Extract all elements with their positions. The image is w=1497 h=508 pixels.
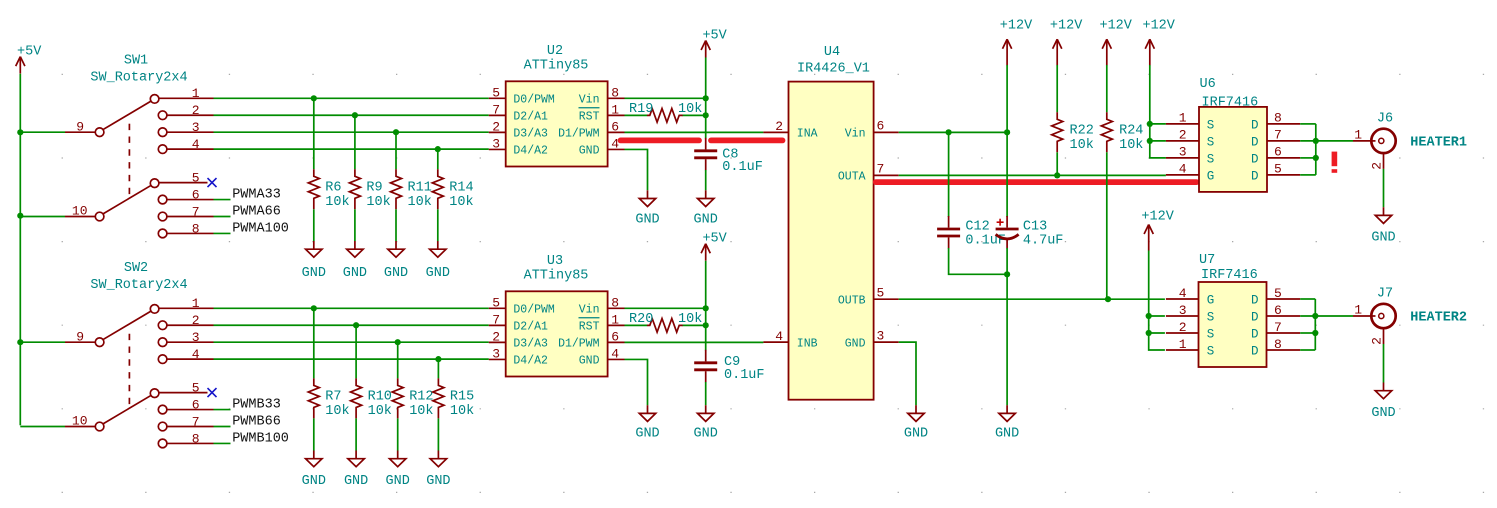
svg-text:PWMB66: PWMB66: [232, 415, 281, 430]
resistor R24 10k: [1101, 112, 1112, 152]
svg-text:2: 2: [492, 329, 500, 344]
U2 pin 8 (Vin): [579, 85, 625, 106]
label R14 value: [449, 180, 473, 210]
svg-text:GND: GND: [426, 266, 450, 281]
switch SW1 pin 7: [158, 204, 213, 221]
ground GND under R15: [426, 451, 450, 490]
svg-text:PWMA100: PWMA100: [232, 221, 289, 236]
junction net1B: [311, 305, 317, 311]
svg-text:+5V: +5V: [702, 232, 727, 247]
wire U2 pin6 to U4 INA: [625, 131, 764, 133]
wire U2 pin4 to GND: [625, 149, 648, 190]
svg-text:GND: GND: [579, 355, 600, 368]
ground GND under C9: [694, 405, 718, 441]
wire +12V#5 to U7 S pins: [1149, 251, 1165, 351]
U7 pin 5 (D) right: [1251, 286, 1300, 308]
wire C12 bottom to join: [949, 248, 1008, 274]
svg-text:10: 10: [72, 414, 88, 429]
label R24 value: [1119, 123, 1143, 153]
svg-text:1: 1: [611, 312, 619, 327]
U7 pin 4 (G) left: [1166, 286, 1214, 308]
svg-text:OUTB: OUTB: [838, 294, 866, 307]
U6 pin 7 (D) right: [1251, 128, 1300, 150]
junction net3A: [393, 129, 399, 135]
svg-text:IRF7416: IRF7416: [1201, 268, 1258, 283]
junction U7 D7: [1312, 330, 1318, 336]
wire U3 pin6 to U4 INB: [625, 341, 764, 343]
transistor U7 IRF7416 body: [1199, 282, 1267, 367]
svg-text:S: S: [1207, 310, 1215, 324]
resistor R11 10k: [391, 169, 402, 209]
svg-text:10k: 10k: [450, 404, 474, 419]
wire SW2 pos1 to U3: [214, 307, 489, 309]
ground GND U3 pin4: [635, 405, 659, 441]
switch SW1 arm A: [103, 101, 152, 130]
svg-text:8: 8: [611, 85, 619, 100]
U4 pin 7 (OUTA): [838, 162, 899, 184]
svg-text:Vin: Vin: [579, 94, 600, 107]
svg-text:10k: 10k: [449, 195, 473, 210]
junction U6 S1: [1147, 121, 1153, 127]
wire C13 top: [1006, 132, 1008, 217]
svg-text:RST: RST: [579, 321, 600, 334]
svg-text:6: 6: [1274, 145, 1282, 160]
ground GND J7: [1371, 383, 1395, 421]
junction left rail / SW1 pin10: [17, 213, 23, 219]
U4 pin 5 (OUTB): [838, 285, 899, 307]
svg-text:G: G: [1207, 293, 1215, 307]
J7 pin 2: [1369, 327, 1384, 345]
ground GND under C12/C13: [995, 405, 1019, 441]
resistor R10 10k: [351, 378, 362, 418]
wire R7 top: [313, 308, 315, 378]
svg-text:2: 2: [1179, 320, 1187, 335]
svg-text:9: 9: [76, 329, 84, 344]
wire R9 top: [354, 115, 356, 169]
svg-text:6: 6: [1274, 303, 1282, 318]
resistor R7 10k: [308, 378, 319, 418]
svg-text:7: 7: [1274, 128, 1282, 143]
junction OUTB/R24: [1105, 296, 1111, 302]
label R7 value: [325, 389, 349, 419]
svg-text:J7: J7: [1377, 287, 1393, 302]
svg-text:6: 6: [192, 187, 200, 202]
svg-text:S: S: [1207, 135, 1215, 149]
svg-text:8: 8: [1274, 111, 1282, 126]
label R9 value: [366, 180, 390, 210]
svg-text:7: 7: [492, 312, 500, 327]
svg-text:6: 6: [611, 119, 619, 134]
svg-text:D2/A1: D2/A1: [513, 321, 548, 334]
switch SW2 common pin 10 wire: [20, 426, 65, 428]
svg-text:1: 1: [192, 86, 200, 101]
resistor R15 10k: [433, 378, 444, 418]
wire U6 pin8 stub: [1300, 123, 1316, 125]
U2 pin 1 (RST): [579, 102, 625, 123]
U3 pin 4 (GND): [579, 346, 625, 367]
switch SW1 pin 2: [158, 103, 213, 119]
svg-text:D3/A3: D3/A3: [513, 338, 548, 351]
svg-text:10k: 10k: [368, 404, 392, 419]
svg-text:SW_Rotary2x4: SW_Rotary2x4: [90, 278, 187, 293]
svg-text:S: S: [1207, 344, 1215, 358]
svg-text:S: S: [1207, 327, 1215, 341]
svg-text:D: D: [1251, 327, 1259, 341]
switch SW1 pin 4: [158, 137, 213, 154]
wire U6 pin6 stub: [1300, 157, 1316, 159]
svg-text:1: 1: [1179, 111, 1187, 126]
label C13 value: [1023, 220, 1064, 249]
op-amp U2 ATTiny85 body: [506, 81, 608, 166]
svg-text:J6: J6: [1377, 112, 1393, 127]
svg-text:GND: GND: [344, 474, 368, 489]
svg-text:3: 3: [492, 346, 500, 361]
svg-text:2: 2: [192, 103, 200, 118]
ground GND under R10: [344, 451, 368, 490]
U4 pin 2 (INA): [763, 119, 817, 140]
ground GND under R9: [343, 241, 367, 281]
switch SW1 common pin 10 wire: [20, 216, 65, 218]
svg-text:1: 1: [1354, 127, 1362, 142]
svg-text:10: 10: [72, 204, 88, 219]
op-amp U3 ATTiny85 body: [506, 291, 608, 376]
svg-text:INA: INA: [797, 128, 818, 141]
wire U7 pin7 stub: [1300, 332, 1315, 334]
svg-text:D: D: [1251, 344, 1259, 358]
svg-text:10k: 10k: [408, 195, 432, 210]
svg-text:R9: R9: [366, 180, 382, 195]
svg-text:4: 4: [611, 346, 619, 361]
svg-text:ATTiny85: ATTiny85: [524, 59, 589, 74]
svg-text:7: 7: [877, 162, 885, 177]
U3 pin 7 (D2/A1): [489, 312, 548, 333]
U7 pin 2 (S) left: [1166, 320, 1214, 342]
svg-text:PWMB100: PWMB100: [232, 431, 289, 446]
J6 pin 2: [1369, 152, 1384, 170]
svg-text:5: 5: [192, 380, 200, 395]
wire U6 S1 stub: [1150, 123, 1166, 125]
svg-text:U6: U6: [1200, 77, 1216, 92]
U2 pin 2 (D3/A3): [489, 119, 548, 140]
ground GND under R6: [302, 241, 326, 281]
switch SW2 pin 3: [158, 330, 213, 347]
wire SW2 pos3 to U3: [214, 341, 489, 343]
wire U3 pin8 to +5V: [625, 307, 706, 309]
wire J6 pin2 down: [1383, 169, 1385, 207]
wire U6 D rail: [1315, 124, 1317, 175]
wire R12 bottom: [397, 418, 399, 450]
wire U7 S2 stub: [1149, 332, 1165, 334]
resistor R6 10k: [308, 169, 319, 209]
switch SW2 arm A: [103, 311, 152, 340]
wire +12V#4 to U6 S pins: [1150, 65, 1166, 158]
svg-text:4: 4: [1179, 162, 1187, 177]
wire U6 pin5 stub: [1300, 174, 1316, 176]
wire R7 bottom: [313, 418, 315, 450]
power symbol PWR06 +12V: [1099, 18, 1132, 65]
svg-text:U3: U3: [547, 254, 563, 269]
svg-text:IR4426_V1: IR4426_V1: [797, 62, 870, 77]
label R12 value: [409, 389, 433, 419]
U6 pin 3 (S) left: [1166, 145, 1214, 167]
junction net2B: [353, 322, 359, 328]
svg-text:5: 5: [1274, 286, 1282, 301]
svg-text:5: 5: [877, 285, 885, 300]
junction Vin/C13/+12V: [1004, 129, 1010, 135]
svg-text:8: 8: [611, 295, 619, 310]
svg-text:2: 2: [492, 119, 500, 134]
wire U7 S3 stub: [1149, 315, 1165, 317]
wire U6 S2 stub: [1150, 140, 1166, 142]
U4 pin 6 (Vin): [845, 119, 899, 141]
ground GND under R7: [302, 451, 326, 490]
power symbol PWR04 +12V: [1000, 18, 1033, 65]
wire SW2 pos2 to U3: [214, 324, 489, 326]
svg-text:ATTiny85: ATTiny85: [524, 269, 589, 284]
highlighted wire segment (red) A1: [621, 137, 700, 143]
transistor U6 IRF7416 body: [1199, 107, 1267, 192]
svg-text:R19: R19: [629, 102, 653, 117]
ground GND J6: [1371, 207, 1395, 245]
wire +12V#2 to R22: [1056, 65, 1058, 112]
switch SW2 pin 5: [150, 380, 207, 397]
U6 pin 2 (S) left: [1166, 128, 1214, 150]
switch SW1 pin 3: [158, 120, 213, 137]
junction U6 S2: [1147, 138, 1153, 144]
resistor R9 10k: [349, 169, 360, 209]
svg-text:5: 5: [1274, 162, 1282, 177]
junction net4A: [435, 146, 441, 152]
label R10 value: [368, 389, 392, 419]
label R22 value: [1070, 123, 1094, 153]
svg-text:U2: U2: [547, 44, 563, 59]
svg-text:GND: GND: [384, 266, 408, 281]
U7 pin 1 (S) left: [1166, 337, 1214, 359]
junction U6 D6: [1313, 155, 1319, 161]
svg-text:1: 1: [1354, 303, 1362, 318]
svg-text:8: 8: [192, 221, 200, 236]
U3 pin 6 (D1/PWM): [558, 329, 624, 350]
wire to label PWMA100: [214, 232, 231, 234]
junction U7 S3: [1146, 313, 1152, 319]
wire SW1 pos4 to U2: [214, 148, 489, 150]
wire U6 pin7 to J6: [1300, 140, 1353, 142]
U6 pin 1 (S) left: [1166, 111, 1214, 133]
svg-text:4: 4: [611, 136, 619, 151]
wire C9 to GND: [705, 382, 707, 405]
label R20 value: [629, 312, 702, 327]
svg-text:R11: R11: [408, 180, 432, 195]
wire R12 top: [397, 342, 399, 378]
svg-text:R10: R10: [368, 389, 392, 404]
svg-text:3: 3: [877, 328, 885, 343]
connector J7: [1371, 304, 1396, 328]
wire +5V left rail: [19, 74, 21, 426]
U2 pin 5 (D0/PWM): [489, 85, 555, 106]
svg-text:5: 5: [492, 85, 500, 100]
U2 pin 6 (D1/PWM): [558, 119, 624, 140]
wire U3 pin1 to R20: [625, 324, 648, 326]
switch SW2 pin 8: [158, 431, 213, 448]
svg-text:+12V: +12V: [1142, 18, 1175, 33]
no-connect X pin 5: [208, 178, 217, 187]
svg-text:10k: 10k: [366, 195, 390, 210]
wire to label PWMB66: [214, 426, 231, 428]
wire C12 top: [948, 132, 950, 217]
switch SW1 pin 6: [158, 187, 213, 204]
svg-text:0.1uF: 0.1uF: [724, 368, 765, 383]
label R6 value: [325, 180, 349, 210]
no-connect X pin 5: [208, 388, 217, 397]
switch SW2 arm B: [103, 395, 152, 424]
label C9 value: [724, 355, 765, 383]
wire +5V to C8 rail: [705, 58, 707, 139]
ground GND under R14: [426, 241, 450, 281]
wire C13 bottom to GND: [1006, 248, 1008, 405]
svg-text:8: 8: [1274, 337, 1282, 352]
svg-text:U4: U4: [824, 45, 840, 60]
svg-text:GND: GND: [635, 212, 659, 227]
U3 pin 1 (RST): [579, 312, 625, 333]
svg-text:+12V: +12V: [1000, 18, 1033, 33]
U3 pin 8 (Vin): [579, 295, 625, 316]
U7 pin 7 (D) right: [1251, 320, 1300, 342]
junction +5V/RST A: [703, 112, 709, 118]
svg-text:5: 5: [492, 295, 500, 310]
switch SW2 dashed link: [128, 334, 130, 408]
svg-text:GND: GND: [386, 474, 410, 489]
svg-text:7: 7: [492, 102, 500, 117]
svg-text:4: 4: [1179, 286, 1187, 301]
junction U7 D6: [1312, 313, 1318, 319]
svg-text:10k: 10k: [325, 195, 349, 210]
highlighted wire segment (red) A2: [711, 137, 783, 143]
svg-text:GND: GND: [302, 266, 326, 281]
junction left rail / SW1 pin9: [17, 129, 23, 135]
svg-text:D2/A1: D2/A1: [513, 111, 548, 124]
svg-text:D4/A2: D4/A2: [513, 355, 548, 368]
junction net1A: [311, 95, 317, 101]
junction net4B: [435, 356, 441, 362]
U2 pin 4 (GND): [579, 136, 625, 157]
resistor R19 10k: [647, 109, 683, 123]
resistor R20 10k: [647, 319, 683, 333]
junction U6 D7: [1313, 138, 1319, 144]
svg-text:GND: GND: [302, 474, 326, 489]
svg-text:SW_Rotary2x4: SW_Rotary2x4: [90, 70, 187, 85]
ERC marker (red exclamation): [1332, 152, 1338, 173]
svg-text:HEATER2: HEATER2: [1410, 311, 1467, 326]
ground GND under R12: [386, 451, 410, 490]
svg-text:S: S: [1207, 118, 1215, 132]
svg-text:D1/PWM: D1/PWM: [558, 338, 600, 351]
junction U7 S2: [1146, 330, 1152, 336]
op-amp U4 IR4426_V1 body: [789, 82, 874, 400]
wire R14 bottom: [437, 209, 439, 241]
capacitor C13 4.7uF: [996, 216, 1019, 249]
ground GND under C8: [694, 190, 718, 227]
wire U4 OUTA to U6 G: [899, 174, 1166, 176]
wire U3 pin4 to GND: [625, 359, 648, 405]
label C12 value: [965, 220, 1006, 249]
svg-text:2: 2: [1369, 337, 1384, 345]
U2 pin 7 (D2/A1): [489, 102, 548, 123]
svg-text:D1/PWM: D1/PWM: [558, 128, 600, 141]
wire U2 pin8 to +5V: [625, 97, 706, 99]
U3 pin 2 (D3/A3): [489, 329, 548, 350]
wire U7 D rail: [1314, 299, 1316, 350]
power symbol PWR08 +12V: [1141, 209, 1174, 250]
wire U4 Vin to +12V: [899, 131, 1007, 133]
wire SW1 pos1 to U2: [214, 97, 489, 99]
U6 pin 8 (D) right: [1251, 111, 1300, 133]
switch SW2 pin 4: [158, 347, 213, 364]
junction +5V/Vin B: [703, 305, 709, 311]
svg-text:Vin: Vin: [579, 304, 600, 317]
resistor R12 10k: [392, 378, 403, 418]
svg-text:INB: INB: [797, 337, 818, 350]
wire R20 to +5V: [683, 324, 706, 326]
svg-text:10k: 10k: [325, 404, 349, 419]
wire R15 top: [437, 359, 439, 378]
svg-text:9: 9: [76, 119, 84, 134]
svg-text:D: D: [1251, 293, 1259, 307]
power symbol PWR05 +12V: [1050, 18, 1083, 65]
U7 pin 6 (D) right: [1251, 303, 1300, 325]
svg-text:GND: GND: [635, 426, 659, 441]
power symbol PWR02 +5V: [701, 29, 728, 58]
svg-text:+12V: +12V: [1141, 209, 1174, 224]
svg-text:R14: R14: [449, 180, 473, 195]
power symbol PWR01 +5V: [16, 45, 43, 74]
label R11 value: [408, 180, 432, 210]
junction net3B: [395, 339, 401, 345]
connector J6: [1371, 129, 1396, 153]
svg-text:2: 2: [1179, 128, 1187, 143]
wire to label PWMB100: [214, 442, 231, 444]
wire R6 top: [313, 98, 315, 169]
switch SW2 pin 7: [158, 414, 213, 431]
svg-text:3: 3: [1179, 145, 1187, 160]
switch SW1 pin 9: [65, 119, 104, 136]
wire R24 to OUTB: [1106, 152, 1108, 299]
junction +5V/RST B: [703, 322, 709, 328]
svg-text:GND: GND: [343, 266, 367, 281]
svg-text:+5V: +5V: [702, 29, 727, 44]
svg-text:GND: GND: [426, 474, 450, 489]
svg-text:D0/PWM: D0/PWM: [513, 304, 555, 317]
U7 pin 3 (S) left: [1166, 303, 1214, 325]
power symbol PWR03 +5V: [701, 232, 728, 261]
junction Vin/C12: [946, 129, 952, 135]
wire to label PWMA33: [214, 199, 231, 201]
junction C12/C13 join: [1004, 271, 1010, 277]
capacitor C12 0.1uF: [937, 216, 960, 249]
U6 pin 5 (D) right: [1251, 162, 1300, 184]
wire +12V#1 down: [1006, 65, 1008, 132]
svg-text:D: D: [1251, 152, 1259, 166]
svg-text:GND: GND: [904, 426, 928, 441]
junction +5V/Vin A: [703, 95, 709, 101]
switch SW1 pin 8: [158, 221, 213, 238]
svg-text:D: D: [1251, 135, 1259, 149]
svg-text:1: 1: [1179, 337, 1187, 352]
svg-text:GND: GND: [1371, 406, 1395, 421]
wire to label PWMB33: [214, 409, 231, 411]
svg-text:5: 5: [192, 170, 200, 185]
svg-text:7: 7: [1274, 320, 1282, 335]
switch SW2 pin 9: [65, 329, 104, 346]
